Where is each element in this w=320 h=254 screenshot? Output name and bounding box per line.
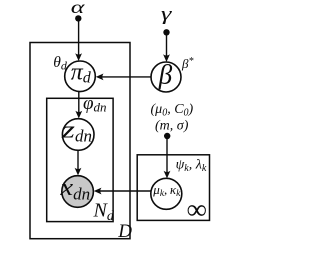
wire alpha -> pi_d xyxy=(75,18,82,61)
svg-text:∞: ∞ xyxy=(187,195,207,226)
plate label N_d xyxy=(93,200,115,225)
hyperparameter label gamma xyxy=(161,4,172,25)
wire gamma -> beta xyxy=(163,32,170,62)
node label beta* xyxy=(181,56,193,71)
wire pi_d -> z_dn xyxy=(75,92,82,119)
hyperparameter label alpha xyxy=(71,0,85,17)
plate label D xyxy=(117,221,132,242)
wire beta -> pi_d xyxy=(96,74,151,81)
dot node gamma xyxy=(163,29,169,35)
node label psi_k, lambda_k xyxy=(176,158,207,175)
prior label (m, sigma) xyxy=(155,119,189,134)
dot node (m, sigma) xyxy=(164,133,170,139)
node z_dn xyxy=(60,117,94,150)
node label phi_dn xyxy=(83,93,107,114)
node x_dn (observed, shaded) xyxy=(59,175,93,207)
node pi_d xyxy=(65,59,96,91)
dot node alpha xyxy=(75,15,81,21)
svg-text:α: α xyxy=(71,0,85,17)
prior label (mu_0, C_0) xyxy=(151,102,194,119)
svg-text:(m, σ): (m, σ) xyxy=(155,119,189,134)
plate infinity xyxy=(137,155,209,221)
svg-text:D: D xyxy=(117,221,132,242)
wire mu_k,kappa_k -> x_dn xyxy=(94,188,151,195)
wire (m,sigma) -> mu_k,kappa_k xyxy=(164,136,171,178)
node mu_k, kappa_k xyxy=(151,178,182,209)
node label theta_d xyxy=(53,54,68,73)
svg-text:β: β xyxy=(158,59,173,89)
svg-text:γ: γ xyxy=(161,4,172,25)
plate N_d xyxy=(47,98,113,221)
wire z_dn -> x_dn xyxy=(75,151,82,176)
plate D xyxy=(30,43,130,239)
plate label infinity xyxy=(187,195,207,226)
node beta xyxy=(151,59,181,92)
